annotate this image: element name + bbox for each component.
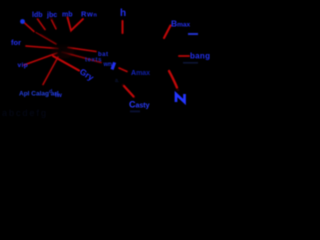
svg-text:Amax: Amax: [131, 70, 150, 77]
svg-text:Apl Calag arl: Apl Calag arl: [19, 91, 59, 98]
svg-text:vip: vip: [18, 62, 29, 69]
svg-text:bang: bang: [190, 52, 210, 61]
svg-text:abcdefg: abcdefg: [2, 108, 48, 118]
svg-text:lw: lw: [55, 92, 63, 99]
svg-text:texts: texts: [85, 58, 102, 64]
svg-text:jbc: jbc: [46, 12, 57, 19]
svg-text:mb: mb: [62, 12, 73, 19]
svg-text:for: for: [11, 38, 21, 47]
svg-text:d: d: [49, 89, 52, 95]
svg-text:h: h: [120, 8, 126, 19]
svg-text:wn: wn: [103, 62, 113, 68]
svg-text:ldb: ldb: [32, 12, 43, 19]
svg-text:a.: a.: [115, 78, 119, 84]
